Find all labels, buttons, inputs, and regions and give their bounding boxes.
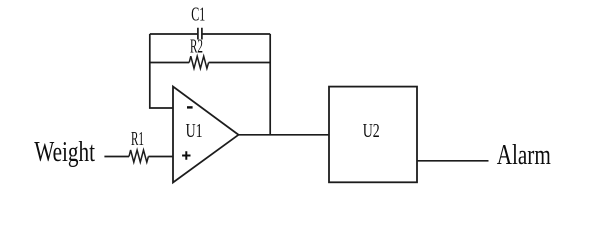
- svg-text:C1: C1: [191, 4, 205, 26]
- svg-text:R2: R2: [190, 35, 203, 57]
- block U2: [329, 87, 417, 183]
- wire top feedback branch right of C1: [202, 33, 270, 35]
- pin - (inverting input marker): [187, 106, 193, 108]
- wire right feedback vertical: [269, 34, 271, 135]
- wire Weight to R1: [104, 156, 129, 158]
- svg-text:R1: R1: [131, 128, 144, 150]
- svg-text:U2: U2: [363, 120, 380, 142]
- wire R1 to op-amp + input: [148, 156, 173, 158]
- wire R2 branch right: [209, 62, 271, 64]
- wire op-amp output to U2: [239, 134, 330, 136]
- wire inverting input lead: [150, 34, 173, 108]
- svg-text:U1: U1: [186, 120, 203, 142]
- wire U2 output to Alarm: [417, 160, 489, 162]
- op-amp U1: [173, 87, 239, 183]
- resistor R1: [129, 150, 148, 162]
- svg-text:Alarm: Alarm: [497, 140, 551, 171]
- capacitor C1: [198, 28, 202, 40]
- resistor R2: [189, 56, 208, 68]
- wire R2 branch left: [150, 62, 189, 64]
- wire top feedback branch left of C1: [150, 33, 198, 35]
- pin + (non-inverting input marker): [182, 151, 190, 159]
- svg-text:Weight: Weight: [34, 137, 95, 168]
